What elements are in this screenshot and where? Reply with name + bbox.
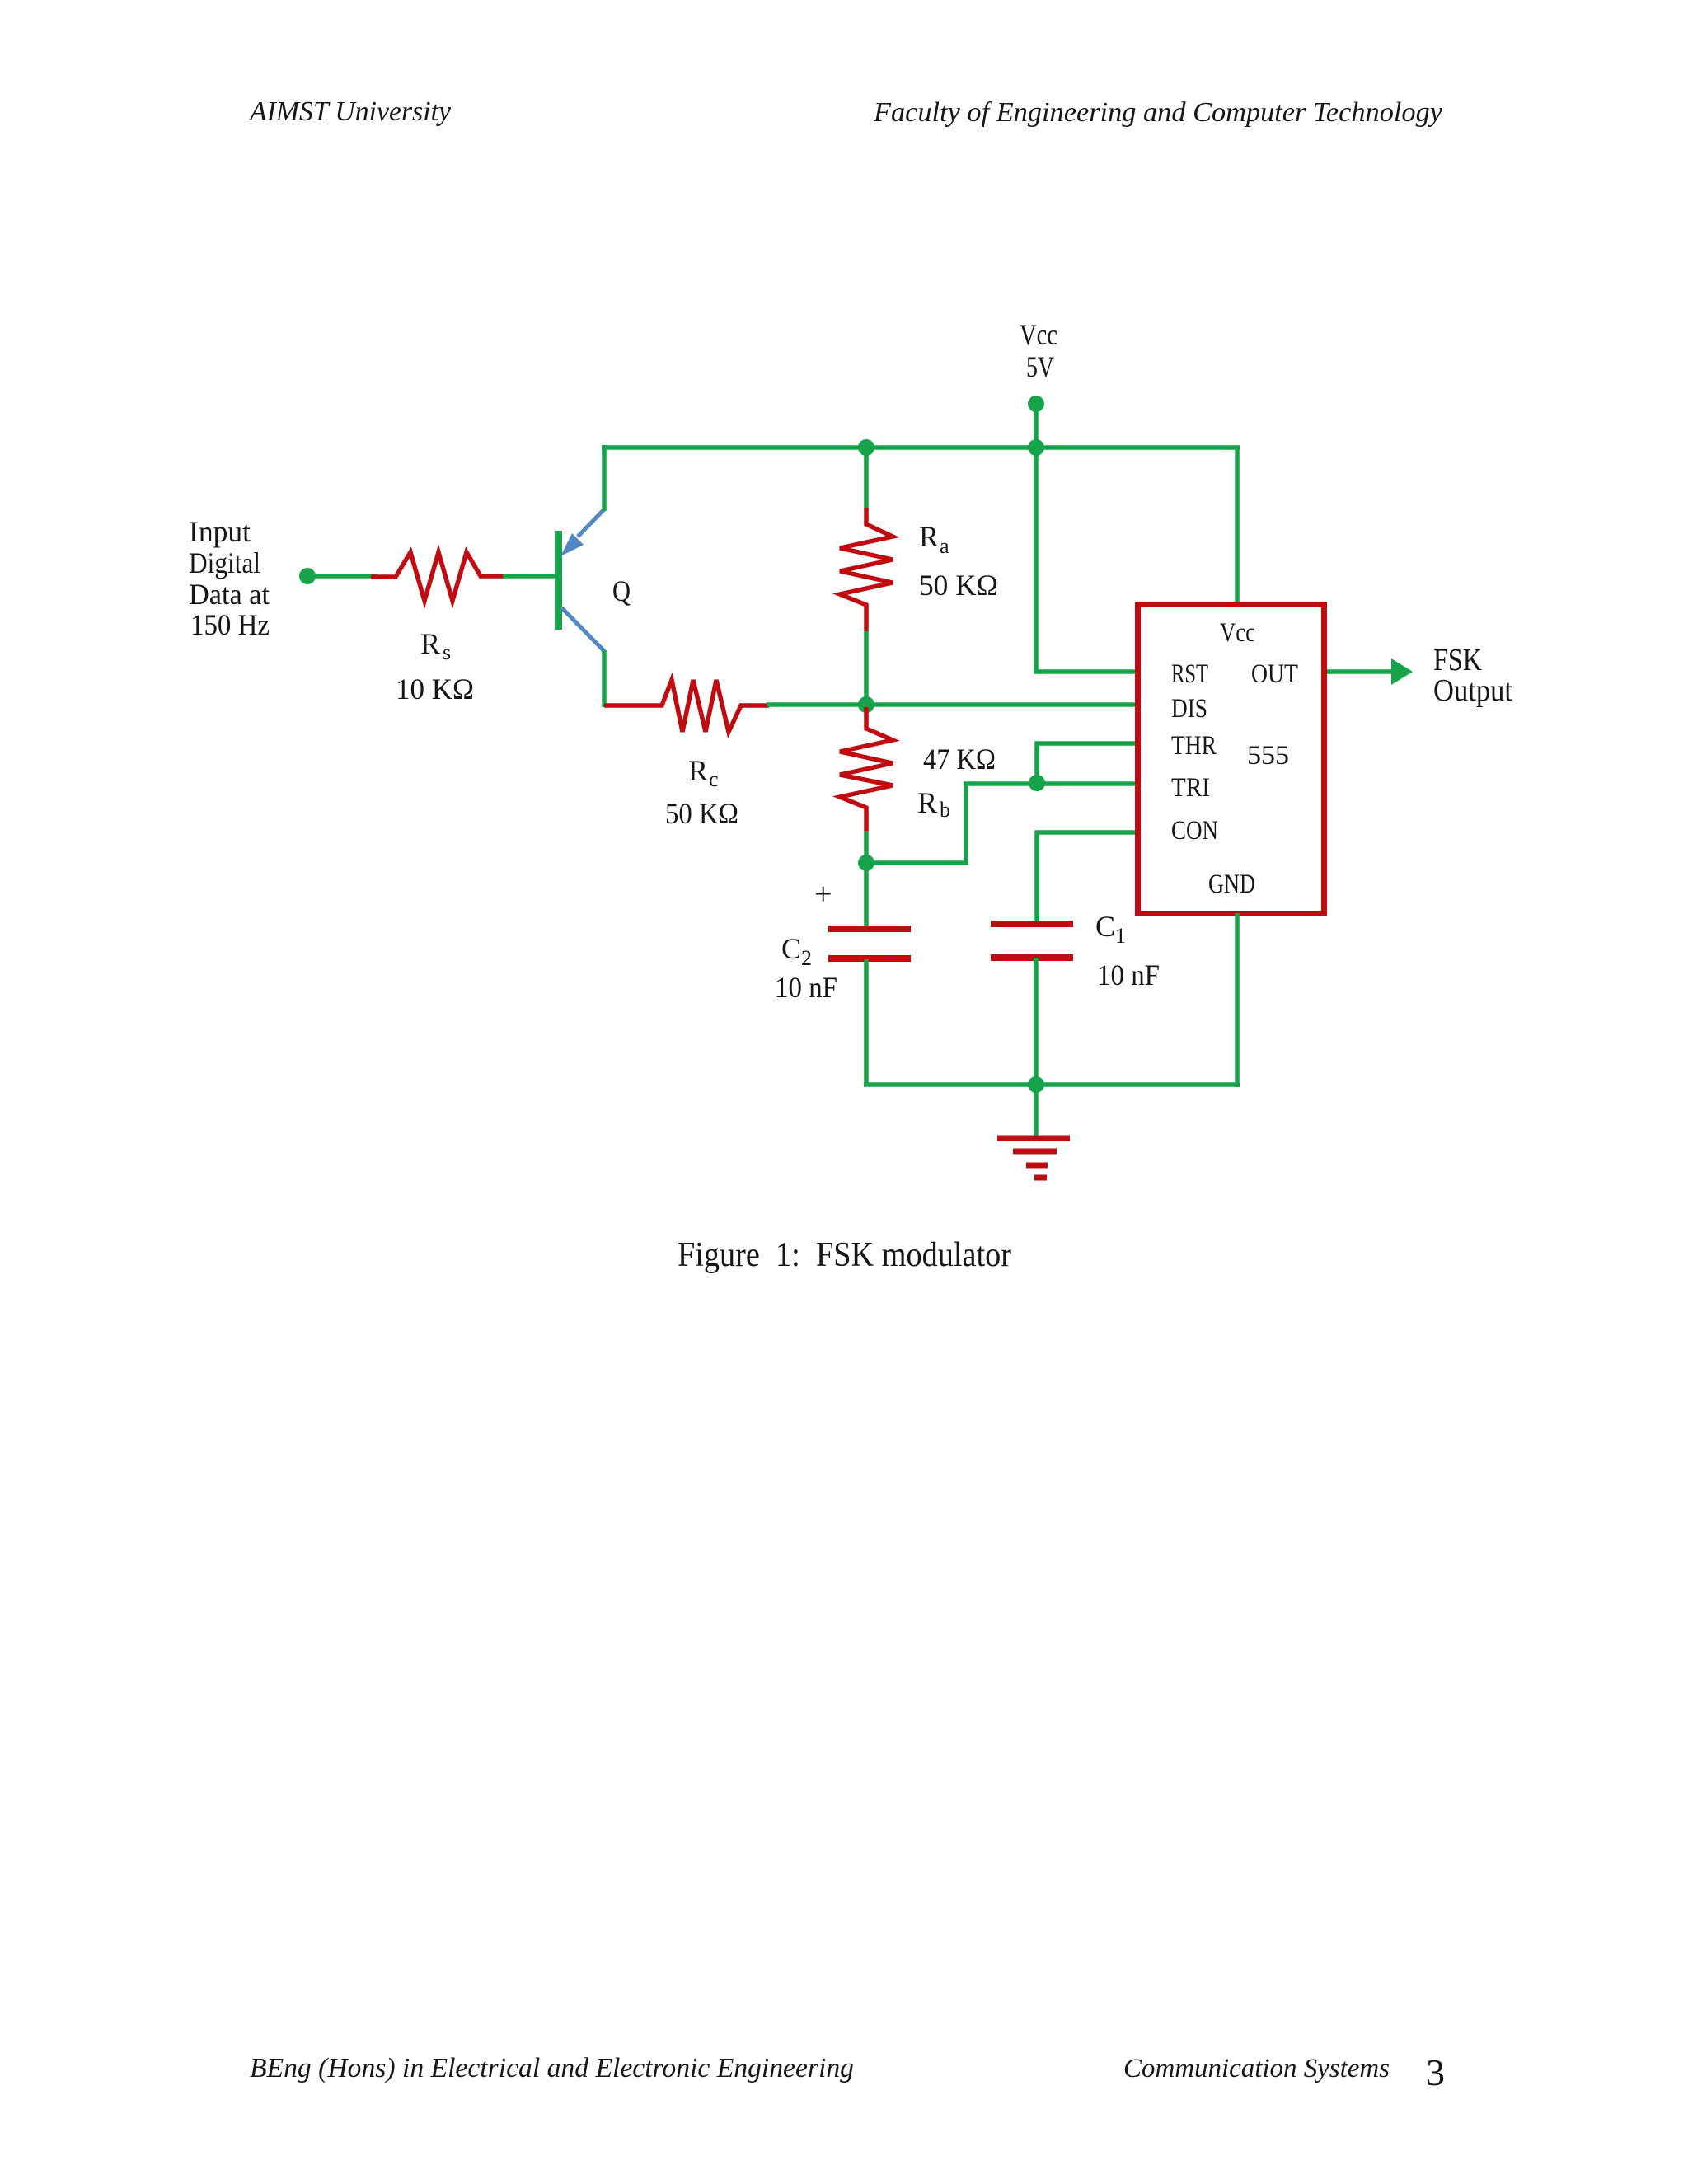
svg-text:+: + <box>814 877 832 912</box>
svg-text:10 nF: 10 nF <box>775 971 837 1004</box>
IC 555 timer <box>1138 605 1325 914</box>
label: Rs <box>420 627 451 664</box>
svg-text:BEng (Hons) in Electrical and: BEng (Hons) in Electrical and Electronic… <box>250 2053 854 2083</box>
Vcc terminal <box>1028 396 1044 448</box>
svg-text:Faculty of Engineering and Com: Faculty of Engineering and Computer Tech… <box>873 97 1443 128</box>
svg-text:s: s <box>443 640 451 664</box>
svg-text:Output: Output <box>1433 673 1512 708</box>
wire: input to Rs <box>311 574 377 579</box>
arrow: FSK output <box>1391 658 1413 685</box>
svg-text:GND: GND <box>1208 869 1255 899</box>
node: input terminal <box>299 568 316 584</box>
svg-text:3: 3 <box>1426 2051 1445 2093</box>
capacitor C2 <box>828 863 911 1085</box>
svg-text:150 Hz: 150 Hz <box>190 608 270 641</box>
label: Rc <box>688 754 719 791</box>
svg-text:Data at: Data at <box>189 578 270 611</box>
svg-text:TRI: TRI <box>1171 773 1210 803</box>
svg-text:10 nF: 10 nF <box>1097 958 1160 991</box>
wire: collector to top rail <box>602 445 607 511</box>
svg-text:R: R <box>917 786 937 819</box>
svg-text:Q: Q <box>612 574 631 607</box>
svg-text:C: C <box>1095 910 1115 943</box>
svg-text:Vcc: Vcc <box>1020 318 1057 351</box>
ground <box>997 1085 1070 1178</box>
wire: Vcc rail to RST pin <box>1036 448 1138 672</box>
svg-text:R: R <box>919 520 939 553</box>
svg-text:a: a <box>940 534 949 558</box>
svg-text:c: c <box>709 767 719 791</box>
node: junction Rc/Ra/Rb <box>858 696 874 713</box>
svg-text:Digital: Digital <box>189 546 260 579</box>
svg-text:b: b <box>940 798 950 822</box>
wire: top rail to 555 Vcc pin <box>1235 448 1240 607</box>
svg-text:1: 1 <box>1115 924 1126 948</box>
transistor Q <box>555 509 605 652</box>
svg-text:Communication Systems: Communication Systems <box>1123 2054 1390 2083</box>
svg-text:50 KΩ: 50 KΩ <box>665 797 738 830</box>
node: junction top rail / Ra <box>858 439 874 456</box>
wire: top rail <box>602 445 1240 450</box>
svg-text:OUT: OUT <box>1251 659 1298 689</box>
node: junction THR/TRI <box>1029 775 1045 791</box>
svg-text:2: 2 <box>801 946 812 970</box>
svg-text:R: R <box>420 627 440 660</box>
wire: bottom rail <box>864 1082 1240 1087</box>
node: junction Rb/C2/TRI line <box>858 855 874 871</box>
capacitor C1 <box>991 921 1073 1085</box>
label: C1 <box>1095 910 1126 948</box>
wire: junction to TRI pin <box>866 784 1138 863</box>
svg-text:Figure 1: FSK modulator: Figure 1: FSK modulator <box>678 1236 1011 1274</box>
svg-text:THR: THR <box>1171 731 1217 761</box>
svg-text:AIMST University: AIMST University <box>248 96 452 127</box>
svg-text:47 KΩ: 47 KΩ <box>923 743 996 776</box>
svg-text:RST: RST <box>1171 659 1208 689</box>
svg-text:C: C <box>781 932 801 965</box>
svg-text:FSK: FSK <box>1433 643 1482 677</box>
svg-text:CON: CON <box>1171 816 1218 846</box>
resistor Ra <box>840 448 893 705</box>
wire: emitter down <box>602 650 607 707</box>
label: FSK Output <box>1433 643 1512 708</box>
resistor Rs <box>371 552 504 601</box>
svg-text:10 KΩ: 10 KΩ <box>396 673 474 705</box>
wire: GND pin to bottom rail <box>1235 913 1240 1087</box>
svg-text:Vcc: Vcc <box>1220 618 1255 648</box>
svg-text:50 KΩ: 50 KΩ <box>919 569 998 602</box>
svg-text:DIS: DIS <box>1171 694 1207 724</box>
wire: THR link <box>1037 743 1138 783</box>
resistor Rc <box>604 680 769 732</box>
node: junction top rail / Vcc <box>1028 439 1044 456</box>
label: C2 <box>781 932 812 970</box>
svg-text:555: 555 <box>1247 741 1289 771</box>
svg-text:Input: Input <box>189 515 251 548</box>
svg-text:R: R <box>688 754 708 787</box>
resistor Rb <box>840 707 893 863</box>
node: junction bottom rail / ground <box>1028 1076 1044 1093</box>
wire: Rs to base <box>503 574 557 579</box>
svg-text:5V: 5V <box>1026 350 1054 383</box>
wire: OUT pin to arrow <box>1327 669 1395 674</box>
label: Rb <box>917 786 950 822</box>
wire: Rc to DIS pin <box>767 702 1138 707</box>
wire: CON pin to C1 <box>1037 832 1138 924</box>
label: Ra <box>919 520 949 558</box>
label: Input Digital Data at 150 Hz <box>189 515 270 641</box>
